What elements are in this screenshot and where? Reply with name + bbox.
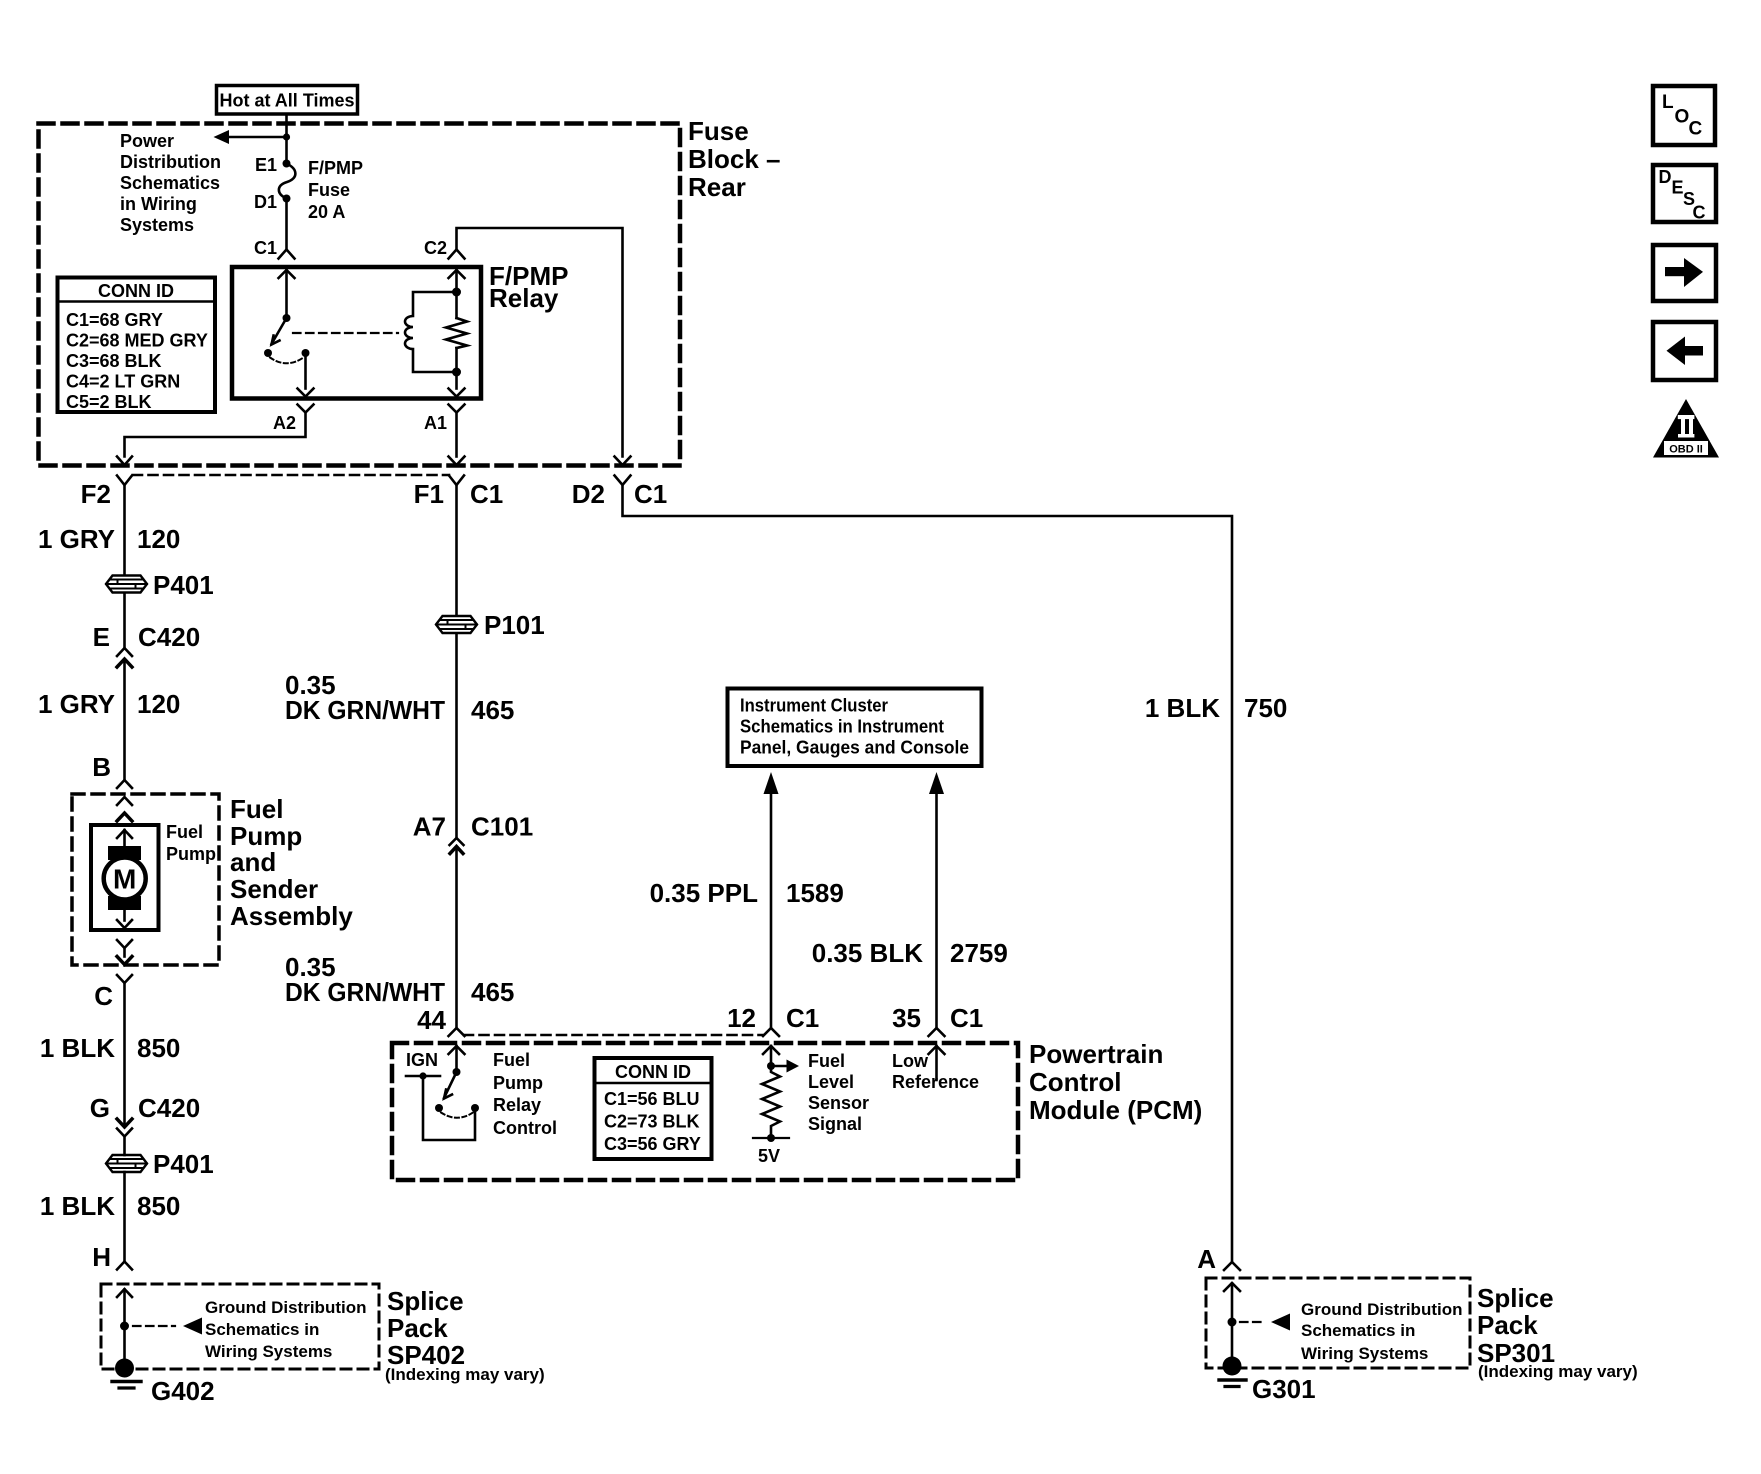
fuel pump relay control switch arm [444,1072,457,1099]
note Indexing may vary (SP402) [385,1365,545,1384]
relay pin C1 internal arrow [279,270,295,318]
svg-text:M: M [113,864,136,895]
label IGN [406,1050,438,1070]
svg-text:Fuel: Fuel [808,1051,845,1071]
wire label 1 GRY 120 lower [38,689,180,719]
icon next arrow box [1653,245,1716,301]
connector C1 label at F1 [470,479,503,509]
svg-text:C: C [1693,203,1706,223]
svg-text:P401: P401 [153,570,214,600]
connector A1 female chevron and wire to F1 [449,405,465,466]
label Fuel Level Sensor Signal [808,1051,869,1134]
wire black 850 to ground splice [123,1172,126,1261]
motor commutator top block [108,846,141,860]
svg-text:750: 750 [1244,693,1287,723]
wire label 0.35 BLK 2759 [812,938,1008,968]
pin 44 label [417,1005,446,1035]
svg-text:P401: P401 [153,1149,214,1179]
svg-text:0.35 PPL: 0.35 PPL [650,878,759,908]
svg-text:C2: C2 [424,238,447,258]
label P101 [484,610,545,640]
connector C420 label [138,622,200,652]
value label F/PMP Fuse 20 A [308,158,363,222]
PCM pin 44 internal arrow [449,1046,465,1072]
svg-text:D2: D2 [572,479,605,509]
connector C420 chevrons lower [117,1119,132,1137]
svg-text:F1: F1 [414,479,444,509]
svg-text:2759: 2759 [950,938,1008,968]
ground G402 symbol [112,1359,141,1389]
svg-text:C: C [94,981,113,1011]
svg-text:DK GRN/WHT: DK GRN/WHT [285,977,445,1007]
svg-text:H: H [92,1242,111,1272]
svg-text:F2: F2 [81,479,111,509]
svg-text:A7: A7 [413,812,446,842]
connector table CONN ID (fuse block) [58,278,216,413]
svg-text:C2=68 MED GRY: C2=68 MED GRY [66,331,208,351]
wire black 750 from D2 down right side [623,485,1233,1261]
motor commutator bottom block [108,896,141,910]
pin D2 label [572,479,605,509]
svg-text:5V: 5V [758,1146,780,1166]
wire label 1 GRY 120 upper [38,524,180,554]
svg-text:Ground Distribution: Ground Distribution [1301,1300,1462,1319]
note Indexing may vary (SP301) [1478,1362,1638,1381]
connector C101 chevrons [450,838,464,854]
dashed reference pointer SP301 [1240,1314,1290,1331]
PCM pin 12 internal arrow [763,1046,779,1066]
wire P401 to C420 [123,594,126,648]
wire blk 2759 to instrument cluster [929,772,944,1027]
pin 12 label [727,1003,756,1033]
svg-text:C2=73 BLK: C2=73 BLK [604,1112,700,1132]
connector C1 female chevron at relay [279,250,295,259]
svg-text:E: E [1672,178,1684,198]
pin F2 label [81,479,111,509]
svg-text:Powertrain: Powertrain [1029,1039,1163,1069]
svg-text:(Indexing may vary): (Indexing may vary) [385,1365,545,1384]
svg-text:C1: C1 [950,1003,983,1033]
pin E1 label [255,155,277,175]
label Low Reference [892,1051,979,1092]
label Powertrain Control Module (PCM) [1029,1039,1202,1125]
label Fuel Pump (small) [166,822,216,864]
in-line connector dashed line below fuse block [133,474,449,477]
splice pack SP402 dashed enclosure [101,1284,379,1369]
svg-text:Fuse: Fuse [308,180,350,200]
svg-text:0.35 BLK: 0.35 BLK [812,938,923,968]
svg-text:C3=68 BLK: C3=68 BLK [66,351,162,371]
IGN feed line [406,1075,440,1078]
fuse block dashed enclosure (Fuse Block - Rear) [39,124,681,466]
connector A2 female chevron and wire to F2 [117,405,314,466]
pin D1 label [254,192,277,212]
connector Y at pin 44 [449,1028,465,1036]
svg-text:Schematics in: Schematics in [1301,1321,1415,1340]
note Power Distribution Schematics in Wiring Systems [120,131,221,235]
svg-text:IGN: IGN [406,1050,438,1070]
note Ground Distribution Schematics in Wiring Systems (SP301) [1301,1300,1462,1363]
svg-text:and: and [230,847,276,877]
connector F2 female Y [117,476,132,486]
svg-text:Signal: Signal [808,1114,862,1134]
label F/PMP Relay [489,261,568,313]
pin C1 label at relay [254,238,277,258]
connector Y at pin 35 [929,1028,945,1036]
svg-text:Pump: Pump [493,1073,543,1093]
svg-text:Hot at All Times: Hot at All Times [219,91,354,111]
connector C1 label at pin 35 [950,1003,983,1033]
fuel pump and sender assembly dashed enclosure [72,794,219,965]
relay coil L1 [405,292,457,372]
svg-text:Pump: Pump [166,844,216,864]
svg-text:A1: A1 [424,413,447,433]
relay switch common dot [283,314,291,322]
svg-text:12: 12 [727,1003,756,1033]
svg-text:F/PMP: F/PMP [308,158,363,178]
relay actuation dashed link [293,332,398,334]
svg-text:G: G [90,1093,110,1123]
svg-text:E: E [93,622,110,652]
fuel pump motor M1 box [91,825,159,930]
wire label 0.35 DK GRN/WHT 465 lower [285,952,514,1007]
splice P401 lower [106,1155,147,1172]
svg-text:Fuel: Fuel [493,1050,530,1070]
icon DESC box [1653,165,1716,223]
svg-text:OBD II: OBD II [1669,444,1703,456]
svg-text:Sensor: Sensor [808,1093,869,1113]
svg-text:1 GRY: 1 GRY [38,524,115,554]
5V supply bar [753,1137,789,1139]
5V supply node dot [767,1134,775,1142]
pin C2 label at relay [424,238,447,258]
svg-text:CONN ID: CONN ID [98,281,174,301]
wire C420 to P401 [123,1137,126,1156]
svg-text:DK GRN/WHT: DK GRN/WHT [285,695,445,725]
pin 35 label [892,1003,921,1033]
svg-text:Reference: Reference [892,1072,979,1092]
connector chevrons below motor [117,940,132,965]
fuel level sensor resistor [762,1066,780,1138]
splice P101 [436,616,477,633]
svg-text:C5=2 BLK: C5=2 BLK [66,392,152,412]
pin H label [92,1242,111,1272]
svg-text:Fuel: Fuel [230,794,283,824]
svg-text:20 A: 20 A [308,202,345,222]
connector Y at pin 12 [763,1028,779,1036]
ground G301 label [1252,1374,1316,1404]
splice pack SP301 dashed enclosure [1206,1278,1470,1368]
svg-text:Relay: Relay [489,283,559,313]
IGN driver loop wire [423,1076,475,1140]
svg-text:P101: P101 [484,610,545,640]
junction dot at power feed [283,133,290,140]
wire dk grn/wht 465 to PCM [455,847,458,1027]
svg-text:1 BLK: 1 BLK [40,1191,115,1221]
svg-text:850: 850 [137,1191,180,1221]
svg-text:G402: G402 [151,1376,215,1406]
PCM dashed enclosure [392,1043,1018,1180]
svg-text:C1: C1 [786,1003,819,1033]
relay suppression resistor [446,318,467,348]
relay switch dashed throw arc [270,358,304,364]
svg-text:1 BLK: 1 BLK [40,1033,115,1063]
fuse F/PMP 20A element [279,164,296,199]
svg-text:C101: C101 [471,812,533,842]
svg-text:44: 44 [417,1005,446,1035]
in-line connector dashed line at PCM [464,1034,763,1037]
relay switch contact dot right [302,349,310,357]
svg-text:Level: Level [808,1072,854,1092]
label P401 upper [153,570,214,600]
svg-text:Control: Control [1029,1067,1121,1097]
connector B chevron [117,780,132,788]
svg-text:C1: C1 [634,479,667,509]
junction dot SP402 [120,1322,129,1331]
label Splice Pack SP301 [1477,1283,1555,1368]
connector C420 label lower [138,1093,200,1123]
connector table CONN ID (PCM) [595,1058,712,1159]
svg-text:D: D [1659,167,1672,187]
svg-text:1589: 1589 [786,878,844,908]
connector chevrons inside pump assembly [117,797,132,821]
svg-text:Fuel: Fuel [166,822,203,842]
wire D2 exit arrow [615,457,631,466]
pin E label at C420 [93,622,110,652]
svg-text:Schematics in: Schematics in [205,1320,319,1339]
svg-text:C3=56 GRY: C3=56 GRY [604,1134,701,1154]
fuel pump relay control switch top dot [453,1068,461,1076]
connector A chevron [1224,1262,1240,1270]
switch contact dot right (PCM) [471,1104,479,1112]
svg-text:C: C [1689,119,1703,140]
ground G402 label [151,1376,215,1406]
svg-text:Fuse: Fuse [688,116,749,146]
dashed reference pointer SP402 [133,1318,202,1335]
connector H chevron [117,1262,132,1270]
relay switch arm [272,318,287,345]
pin C label [94,981,113,1011]
motor return arrow [117,910,132,928]
note Ground Distribution Schematics in Wiring Systems (SP402) [205,1298,366,1361]
svg-text:Panel, Gauges and Console: Panel, Gauges and Console [740,738,969,758]
svg-text:Wiring Systems: Wiring Systems [1301,1344,1428,1363]
junction dot SP301 [1228,1318,1237,1327]
wire dk grn/wht 465 from F1 [455,485,458,616]
instrument cluster reference box [728,689,982,767]
svg-text:C1=68 GRY: C1=68 GRY [66,310,163,330]
svg-text:1 BLK: 1 BLK [1145,693,1220,723]
junction dot coil bottom [452,368,461,377]
pin A2 label [273,413,296,433]
svg-text:Wiring Systems: Wiring Systems [205,1342,332,1361]
svg-text:C420: C420 [138,622,200,652]
svg-text:120: 120 [137,524,180,554]
switch contact dot left (PCM) [435,1104,443,1112]
svg-text:Pack: Pack [387,1313,448,1343]
svg-text:Schematics: Schematics [120,173,220,193]
label Fuel Pump and Sender Assembly [230,794,353,931]
svg-text:C1: C1 [470,479,503,509]
svg-text:E1: E1 [255,155,277,175]
wire gray 120 to fuel pump [123,660,126,780]
connector C101 label [471,812,533,842]
svg-text:A2: A2 [273,413,296,433]
svg-text:C420: C420 [138,1093,200,1123]
wire ppl 1589 to instrument cluster [764,772,779,1027]
svg-text:A: A [1197,1244,1216,1274]
motor M symbol circle [104,858,146,900]
pin F1 label [414,479,444,509]
wire from Hot at All Times down to fuse [285,114,288,163]
label Fuel Pump Relay Control [493,1050,557,1138]
junction dot IGN [419,1072,426,1079]
PCM pin 35 internal arrow [929,1046,945,1080]
label 5V [758,1146,780,1166]
svg-text:Module (PCM): Module (PCM) [1029,1095,1202,1125]
wire P101 to C101 [455,634,458,839]
wire label 0.35 DK GRN/WHT 465 upper [285,670,514,725]
node D1 fuse terminal dot [283,195,291,203]
wire label 1 BLK 750 [1145,693,1288,723]
svg-text:in Wiring: in Wiring [120,194,197,214]
svg-text:D1: D1 [254,192,277,212]
svg-text:Sender: Sender [230,874,318,904]
svg-text:C1: C1 [254,238,277,258]
fuel level sensor wiper dot [767,1062,775,1070]
svg-text:120: 120 [137,689,180,719]
relay pin A1 internal arrow [449,348,465,397]
svg-text:CONN ID: CONN ID [615,1062,691,1082]
connector C female Y below pump assembly [117,975,132,983]
svg-text:Assembly: Assembly [230,901,353,931]
wire reference arrow to power distribution [214,130,287,144]
switch dashed throw arc (PCM) [441,1113,473,1118]
ground G301 symbol [1219,1357,1246,1387]
connector C420 chevrons [117,648,132,667]
icon previous arrow box [1653,322,1716,380]
pin A1 label [424,413,447,433]
svg-text:850: 850 [137,1033,180,1063]
svg-text:Low: Low [892,1051,929,1071]
svg-text:Control: Control [493,1118,557,1138]
pin B label [92,752,111,782]
splice pack SP402 internal arrow [117,1289,132,1360]
pin A label at SP301 [1197,1244,1216,1274]
wire D1 to relay pin C1 [285,199,288,250]
svg-text:465: 465 [471,977,514,1007]
svg-text:465: 465 [471,695,514,725]
svg-text:Distribution: Distribution [120,152,221,172]
connector F1 female Y [449,476,464,486]
svg-text:Instrument Cluster: Instrument Cluster [740,696,888,716]
pin A7 label [413,812,446,842]
relay pin C2 internal arrow [449,270,465,318]
wire label 1 BLK 850 upper [40,1033,181,1063]
relay pin A2 internal arrow [298,357,314,397]
svg-text:L: L [1662,92,1674,113]
splice P401 upper [106,576,147,593]
svg-text:Splice: Splice [1477,1283,1554,1313]
svg-text:(Indexing may vary): (Indexing may vary) [1478,1362,1638,1381]
label P401 lower [153,1149,214,1179]
icon LOC box [1653,86,1715,145]
svg-text:35: 35 [892,1003,921,1033]
connector D2 female Y [615,476,631,486]
connector C1 label at pin 12 [786,1003,819,1033]
svg-text:1 GRY: 1 GRY [38,689,115,719]
wire gray 120 from F2 [123,485,126,575]
wire label 0.35 PPL 1589 [650,878,844,908]
connector C2 female chevron at relay [449,250,465,259]
connector C1 label at D2 [634,479,667,509]
svg-text:G301: G301 [1252,1374,1316,1404]
node E1 fuse terminal dot [283,160,291,168]
svg-text:O: O [1675,107,1690,128]
relay K1 F/PMP Relay box [232,267,481,399]
svg-text:B: B [92,752,111,782]
icon OBD II triangle [1653,399,1719,458]
junction dot coil top [452,288,461,297]
wire label 1 BLK 850 lower [40,1191,181,1221]
svg-text:C1=56 BLU: C1=56 BLU [604,1089,700,1109]
relay switch contact dot left [264,349,272,357]
pin G label at C420 [90,1093,110,1123]
label Fuse Block - Rear [688,116,781,202]
svg-text:Systems: Systems [120,215,194,235]
svg-text:Splice: Splice [387,1286,464,1316]
svg-text:Block –: Block – [688,144,781,174]
label Splice Pack SP402 [387,1286,465,1370]
svg-text:Power: Power [120,131,174,151]
fuel level sensor wiper arrow [771,1060,799,1073]
node Hot at All Times label box [217,86,358,115]
svg-text:Ground Distribution: Ground Distribution [205,1298,366,1317]
svg-text:Relay: Relay [493,1095,541,1115]
splice pack SP301 internal arrow [1224,1283,1240,1357]
svg-text:Schematics in Instrument: Schematics in Instrument [740,717,944,737]
svg-text:Rear: Rear [688,172,746,202]
wire black 850 from pump [123,983,126,1127]
wire from relay C2 up and over to D2 [457,228,623,457]
svg-text:Pack: Pack [1477,1310,1538,1340]
svg-text:C4=2 LT GRN: C4=2 LT GRN [66,372,180,392]
motor feed arrow [117,830,132,847]
